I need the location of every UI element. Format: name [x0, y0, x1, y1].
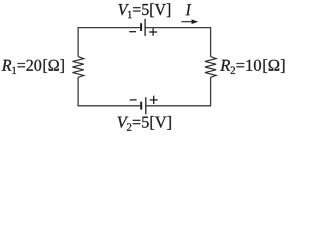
label V1=5[V] [119, 3, 171, 18]
plus sign of V2 [150, 96, 158, 104]
wire left side bottom segment [77, 77, 79, 106]
wire right side top segment [210, 27, 212, 57]
label R1=20[Ohm] [2, 59, 64, 74]
plus sign of V1 [149, 28, 157, 36]
resistor R1 zigzag [73, 57, 84, 78]
wire bottom segment left of V2 [78, 105, 140, 107]
battery V2 short negative plate [140, 102, 142, 110]
minus sign of V2 [130, 99, 137, 101]
wire right side bottom segment [210, 77, 212, 106]
current arrow I [182, 19, 199, 24]
label R2=10[Ohm] [220, 59, 284, 74]
label V2=5[V] [118, 116, 171, 131]
label I (current) [186, 4, 192, 15]
resistor R2 zigzag [205, 57, 216, 78]
battery V2 tall positive plate [145, 97, 147, 114]
battery V1 short negative plate [140, 23, 142, 31]
wire left side top segment [77, 27, 79, 57]
wire top-right segment [145, 27, 210, 29]
wire bottom segment right of V2 [146, 105, 211, 107]
minus sign of V1 [129, 31, 136, 33]
battery V1 tall positive plate [144, 19, 146, 36]
wire top-left segment [78, 27, 140, 29]
